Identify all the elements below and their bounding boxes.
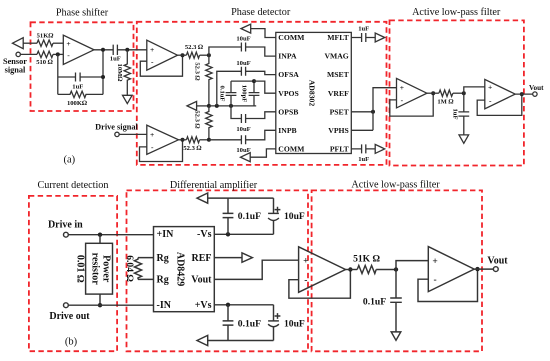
svg-text:VPOS: VPOS	[278, 89, 299, 98]
svg-text:COMM: COMM	[278, 33, 305, 42]
op-amp U3	[147, 125, 179, 154]
junction dot U3 output	[181, 138, 185, 142]
junction dot U9 output	[475, 267, 479, 271]
resistor R4 10M	[124, 50, 130, 96]
terminal Sensor signal	[16, 52, 20, 56]
svg-text:1uF: 1uF	[452, 109, 459, 120]
svg-text:Active low-pass filter: Active low-pass filter	[412, 7, 501, 18]
junction dot U5 output	[431, 91, 435, 95]
capacitor C2 1uF series	[113, 45, 117, 55]
label + C15	[275, 313, 281, 319]
wire COMM top	[251, 29, 276, 38]
wire OFSA branch	[217, 71, 276, 106]
junction dot filter node bottom	[394, 267, 398, 271]
capacitor C1 1uF feedback	[58, 73, 103, 82]
Phase shifter title	[56, 8, 109, 19]
label + C13	[275, 207, 281, 213]
svg-text:INPB: INPB	[278, 126, 296, 135]
svg-text:signal: signal	[5, 65, 26, 74]
capacitor C7 10uF OPSB	[241, 114, 245, 123]
ground COMM bottom	[241, 153, 251, 162]
capacitor C5 0.1uF	[226, 81, 237, 106]
svg-text:Active low-pass filter: Active low-pass filter	[351, 180, 440, 191]
svg-text:10uF: 10uF	[284, 211, 305, 222]
svg-text:1uF: 1uF	[72, 83, 83, 90]
wire R12 to node	[376, 269, 396, 271]
wire Drive in to +IN	[68, 234, 153, 236]
svg-text:10uF: 10uF	[236, 126, 250, 133]
svg-text:PFLT: PFLT	[330, 145, 350, 154]
svg-text:+: +	[400, 83, 404, 92]
ground -Vs	[197, 193, 208, 203]
svg-text:-: -	[304, 276, 307, 286]
junction dot PSET	[371, 110, 375, 114]
svg-text:1uF: 1uF	[110, 56, 121, 63]
svg-text:VMAG: VMAG	[324, 52, 348, 61]
resistor R12 51K	[357, 266, 376, 274]
op-amp U2	[147, 40, 178, 70]
svg-text:Rg: Rg	[157, 253, 169, 264]
label 10MΩ	[116, 64, 123, 83]
op-amp U6	[485, 79, 515, 108]
svg-text:OPSB: OPSB	[278, 107, 298, 116]
input arrow	[13, 38, 24, 49]
svg-text:Vout: Vout	[529, 84, 544, 92]
wire cap box top	[231, 80, 254, 82]
wire VPHS	[351, 129, 373, 131]
wire MFLT	[351, 37, 375, 39]
ground mid rail	[187, 101, 197, 110]
svg-text:-Vs: -Vs	[197, 229, 212, 240]
Current detection block box	[29, 196, 117, 351]
wire ground rail	[209, 105, 256, 107]
label 52.3Ω	[183, 145, 202, 152]
svg-text:52.3 Ω: 52.3 Ω	[194, 110, 201, 129]
label 1uF	[452, 109, 459, 120]
svg-text:1M Ω: 1M Ω	[437, 98, 454, 105]
svg-text:Drive out: Drive out	[49, 311, 90, 322]
svg-text:52.3 Ω: 52.3 Ω	[194, 62, 201, 81]
wire Drive signal to U2	[119, 133, 147, 135]
svg-text:-IN: -IN	[157, 300, 172, 311]
label 100pF	[240, 85, 247, 103]
junction dot Drive out	[98, 303, 102, 307]
svg-text:+: +	[488, 83, 492, 92]
wire U6 out	[515, 93, 533, 95]
svg-text:PSET: PSET	[330, 107, 350, 116]
wire COMM bottom	[250, 149, 276, 157]
label 51KΩ	[353, 254, 380, 265]
svg-text:MFLT: MFLT	[327, 33, 349, 42]
label Vout top	[529, 84, 544, 92]
Current detection title	[37, 180, 108, 191]
label 6.04Ω	[124, 255, 135, 282]
junction dot VPOS	[252, 79, 256, 83]
Phase detector block box	[137, 22, 387, 165]
wire U6 feedback	[477, 94, 522, 115]
Differential amplifier title	[170, 180, 258, 191]
wire PSET-VPHS to filter	[373, 88, 397, 131]
wire node to U9	[396, 261, 428, 270]
wire arrow to R1	[23, 42, 37, 44]
capacitor C4 10uF OFSA	[241, 67, 245, 76]
label Sensor signal	[3, 57, 27, 74]
wire U3 out	[179, 139, 187, 141]
svg-text:1uF: 1uF	[358, 25, 369, 32]
terminal Vout bottom	[493, 267, 498, 272]
capacitor C9 1uF MFLT	[362, 33, 366, 42]
svg-text:AD8429: AD8429	[175, 252, 186, 286]
svg-text:0.1uF: 0.1uF	[363, 296, 386, 307]
label 0.1uF	[363, 296, 386, 307]
svg-text:Current detection: Current detection	[37, 180, 108, 191]
svg-text:(a): (a)	[63, 154, 75, 165]
wire U5 out	[427, 92, 439, 94]
svg-text:INPA: INPA	[278, 52, 297, 61]
svg-text:Vout: Vout	[191, 275, 212, 286]
label (a)	[63, 154, 75, 165]
wire R10 bottom	[99, 294, 101, 305]
terminal Drive in	[64, 232, 69, 237]
ground MFLT	[375, 33, 385, 42]
label 1MΩ	[437, 98, 454, 105]
ground below C16	[391, 332, 401, 340]
label Drive out	[49, 311, 90, 322]
wire REF	[214, 257, 242, 259]
pin labels AD8302 left	[278, 33, 305, 153]
svg-text:Rg: Rg	[157, 275, 169, 286]
label 0.1uF	[238, 319, 261, 330]
resistor R1 51K	[37, 40, 53, 46]
label 52.3Ω	[185, 44, 204, 51]
svg-text:52.3 Ω: 52.3 Ω	[183, 145, 202, 152]
svg-text:+: +	[303, 257, 308, 267]
label 10uF	[236, 126, 250, 133]
label 10uF	[236, 36, 250, 43]
Active low-pass filter title (bottom)	[351, 180, 440, 191]
junction dot U1 output	[101, 48, 105, 52]
resistor R8 52.3 bottom	[186, 137, 199, 143]
capacitor C11 1uF filter	[458, 93, 469, 135]
capacitor C12 0.1uF -Vs	[223, 198, 234, 234]
resistor R3 100K feedback	[58, 91, 103, 97]
svg-text:+: +	[66, 39, 70, 48]
wire PSET	[351, 111, 373, 113]
label Drive in	[48, 219, 83, 230]
wire U3 feedback	[140, 140, 183, 162]
label 1uF	[72, 83, 83, 90]
op-amp U5	[397, 78, 427, 108]
junction dot decoupling rail	[229, 104, 233, 108]
wire C2 to phase detector	[117, 49, 146, 51]
wire +Vs	[214, 304, 273, 306]
svg-text:52.3 Ω: 52.3 Ω	[185, 44, 204, 51]
svg-text:COMM: COMM	[278, 145, 305, 154]
capacitor C8 10uF INPB	[241, 135, 245, 144]
svg-text:Vout: Vout	[487, 255, 508, 266]
ground below C11	[459, 135, 469, 143]
resistor R9 1M	[439, 90, 453, 96]
Differential amplifier block box	[127, 190, 309, 351]
svg-text:VPHS: VPHS	[328, 126, 349, 135]
label 10uF	[284, 319, 305, 330]
label 10uF	[236, 147, 250, 154]
wire U2 feedback	[140, 55, 182, 76]
label 51KΩ	[37, 33, 55, 40]
ground below R4	[123, 95, 133, 103]
resistor R6 52.3 vertical upper	[206, 55, 212, 106]
label 52.3Ω vertical 1	[194, 62, 201, 81]
svg-text:(b): (b)	[65, 337, 78, 348]
pin labels AD8302 right	[324, 33, 349, 153]
label 1uF	[358, 156, 369, 163]
svg-text:Phase shifter: Phase shifter	[56, 8, 109, 19]
wire PFLT	[351, 148, 375, 150]
junction dot U6 output	[520, 92, 524, 96]
junction dot mid rail	[207, 104, 211, 108]
capacitor C3 10uF INPA	[241, 43, 245, 52]
svg-text:Phase detector: Phase detector	[231, 7, 291, 18]
junction dot filter node	[462, 91, 466, 95]
op-amp U8	[299, 247, 346, 292]
Active low-pass filter block box (bottom)	[312, 190, 482, 351]
capacitor C14 0.1uF +Vs	[223, 305, 234, 341]
IC U7 AD8429	[154, 227, 215, 312]
pin labels AD8429 right	[191, 229, 212, 311]
svg-text:Powerresistor: Powerresistor	[90, 253, 112, 286]
label 52.3Ω vertical 2	[194, 110, 201, 129]
wire R1 to op-amp +	[53, 42, 63, 44]
terminal Drive signal	[115, 132, 119, 136]
wire R8 to node	[200, 139, 209, 141]
wire R2 to op-amp -	[53, 53, 63, 55]
wire OPSB branch	[231, 106, 276, 119]
resistor R7 52.3 vertical lower	[206, 106, 212, 140]
arrow REF	[242, 253, 252, 262]
op-amp U1	[63, 35, 94, 64]
resistor R11 6.04	[134, 258, 153, 280]
wire R5 to node	[200, 54, 209, 56]
capacitor C13 10uF -Vs	[268, 198, 279, 234]
Phase shifter block box	[31, 22, 134, 111]
wire Drive out to -IN	[68, 304, 153, 306]
svg-text:100KΩ: 100KΩ	[67, 100, 88, 107]
svg-text:6.04 Ω: 6.04 Ω	[124, 255, 135, 282]
wire Sensor to R2	[20, 53, 37, 55]
label (b)	[65, 337, 78, 348]
junction dot feedback top right	[101, 75, 105, 79]
label 510Ω	[36, 59, 54, 66]
svg-text:+: +	[150, 45, 154, 54]
svg-text:+Vs: +Vs	[195, 300, 212, 311]
svg-text:0.1uF: 0.1uF	[219, 86, 226, 102]
terminal Drive out	[64, 303, 69, 308]
resistor R5 52.3 top	[186, 52, 199, 58]
label 0.1uF	[219, 86, 226, 102]
svg-text:+: +	[432, 257, 437, 267]
wire node to U6	[464, 87, 485, 93]
junction dot U8 output	[348, 267, 352, 271]
wire VPOS	[254, 81, 276, 93]
wire ground to rail	[197, 105, 209, 107]
IC U4 AD8302	[276, 32, 352, 153]
capacitor C6 100pF	[249, 81, 260, 106]
label 10uF	[284, 211, 305, 222]
svg-text:100pF: 100pF	[240, 85, 247, 103]
label Drive signal	[95, 123, 138, 132]
terminal Vout top	[533, 92, 537, 96]
ground PFLT	[375, 144, 385, 153]
wire ground bottom	[208, 340, 274, 342]
label Power resistor	[90, 253, 112, 286]
capacitor C10 1uF PFLT	[362, 144, 366, 153]
svg-text:VREF: VREF	[328, 89, 349, 98]
svg-text:Differential amplifier: Differential amplifier	[170, 180, 258, 191]
label 0.01Ω	[75, 255, 86, 283]
node inverting input dot	[56, 52, 60, 56]
svg-text:51KΩ: 51KΩ	[37, 33, 55, 40]
junction dot Drive in	[98, 233, 102, 237]
wire U9 feedback	[418, 269, 478, 301]
svg-text:510 Ω: 510 Ω	[36, 59, 54, 66]
svg-text:OFSA: OFSA	[278, 70, 299, 79]
power resistor R10 0.01	[86, 243, 113, 294]
wire R10 top	[99, 235, 101, 244]
node dot top rail	[207, 53, 211, 57]
node dot after C2	[125, 48, 129, 52]
label Vout bottom	[487, 255, 508, 266]
junction dot +Vs	[226, 303, 230, 307]
capacitor C16 0.1uF filter	[390, 270, 402, 332]
svg-text:51K Ω: 51K Ω	[353, 254, 380, 265]
junction dot -Vs	[226, 232, 230, 236]
svg-text:Drive signal: Drive signal	[95, 123, 138, 132]
svg-text:+: +	[150, 130, 154, 139]
svg-text:REF: REF	[192, 253, 212, 264]
svg-text:-: -	[434, 276, 437, 286]
junction dot bottom rail	[207, 138, 211, 142]
svg-text:10MΩ: 10MΩ	[116, 64, 123, 83]
wire feedback left vertical	[57, 54, 59, 94]
label 1uF	[358, 25, 369, 32]
wire U5 feedback	[390, 93, 433, 116]
label 100KΩ	[67, 100, 88, 107]
pin labels AD8429 left	[157, 229, 175, 311]
wire U8 out	[346, 269, 358, 271]
svg-text:AD8302: AD8302	[308, 80, 317, 107]
svg-text:+IN: +IN	[157, 229, 175, 240]
wire feedback right vertical	[102, 50, 104, 95]
capacitor C15 10uF +Vs	[268, 305, 279, 341]
wire INPA branch	[209, 47, 276, 56]
svg-text:0.1uF: 0.1uF	[238, 319, 261, 330]
svg-text:10uF: 10uF	[236, 60, 250, 67]
ground COMM top	[241, 24, 251, 33]
Active low-pass filter block box (top)	[390, 20, 524, 165]
label 1uF	[110, 56, 121, 63]
Phase detector title	[231, 7, 291, 18]
wire U9 out	[474, 268, 493, 270]
wire R9 to node	[453, 92, 464, 94]
wire ground top	[208, 197, 274, 199]
junction dot OFSA rail	[215, 104, 219, 108]
svg-text:MSET: MSET	[327, 70, 350, 79]
svg-text:0.1uF: 0.1uF	[238, 211, 261, 222]
wire U1 output	[94, 49, 113, 51]
wire U8 feedback	[289, 270, 351, 299]
ground +Vs	[197, 335, 208, 345]
svg-text:10uF: 10uF	[236, 36, 250, 43]
wire INPB branch	[209, 130, 276, 140]
wire -Vs	[214, 233, 273, 235]
svg-text:0.01 Ω: 0.01 Ω	[75, 255, 86, 283]
op-amp U9	[428, 247, 474, 292]
resistor R2 510	[37, 51, 53, 57]
label 0.1uF	[238, 211, 261, 222]
svg-text:10uF: 10uF	[284, 319, 305, 330]
wire Vout to buffer	[214, 260, 298, 279]
wire U2 out	[178, 54, 187, 56]
label 10uF	[236, 60, 250, 67]
Active low-pass filter title (top)	[412, 7, 501, 18]
svg-text:Drive in: Drive in	[48, 219, 83, 230]
svg-text:1uF: 1uF	[358, 156, 369, 163]
junction dot U2 output	[181, 53, 185, 57]
